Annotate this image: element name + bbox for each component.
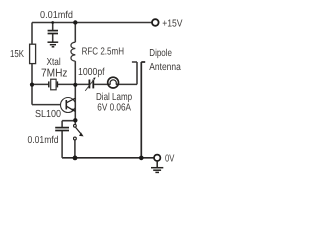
svg-text:15K: 15K xyxy=(10,49,24,60)
svg-text:+15V: +15V xyxy=(162,18,183,29)
svg-text:SL100: SL100 xyxy=(35,109,61,120)
svg-text:7MHz: 7MHz xyxy=(41,67,68,79)
svg-text:Antenna: Antenna xyxy=(149,62,181,73)
svg-text:0V: 0V xyxy=(165,154,175,165)
svg-text:Dial Lamp: Dial Lamp xyxy=(96,92,132,103)
svg-text:Dipole: Dipole xyxy=(149,48,172,59)
svg-text:6V 0.06A: 6V 0.06A xyxy=(97,102,131,113)
svg-text:RFC 2.5mH: RFC 2.5mH xyxy=(82,46,124,57)
svg-text:1000pf: 1000pf xyxy=(78,67,105,78)
svg-text:0.01mfd: 0.01mfd xyxy=(40,10,73,21)
svg-text:0.01mfd: 0.01mfd xyxy=(28,135,59,146)
